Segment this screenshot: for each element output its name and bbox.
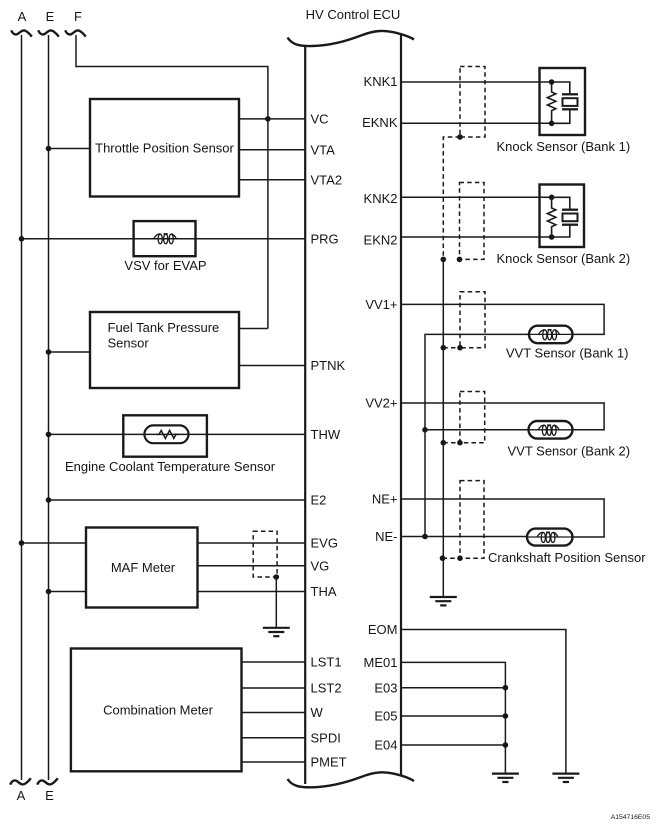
shield drain dashed knock1 to knock2	[443, 137, 460, 259]
VVT sensor bank 1 body	[529, 326, 573, 344]
wire fuel tank sensor supply (to F)	[239, 328, 268, 330]
svg-text:E2: E2	[311, 493, 327, 508]
wire F vertical	[76, 35, 268, 329]
svg-text:E04: E04	[374, 738, 397, 753]
wire A bus	[21, 35, 23, 780]
knock sensor 1 junction dots	[549, 79, 555, 85]
svg-text:MAF Meter: MAF Meter	[111, 560, 176, 575]
wire A to MAF meter (EVG side)	[22, 542, 87, 544]
wire NE-	[401, 536, 527, 538]
MAF meter box	[86, 528, 198, 608]
wire KNK2	[401, 196, 552, 198]
junction dot on E bus at E2	[46, 497, 52, 503]
wire THA	[198, 591, 306, 593]
wire ME01	[401, 662, 505, 773]
VVT sensor 1 coil	[529, 330, 573, 340]
junction dot on E bus at fuel tank sensor	[46, 349, 52, 355]
wire VG	[198, 565, 306, 567]
wire EVG	[198, 542, 306, 544]
junction dot knock1 shield	[457, 134, 463, 140]
VSV for EVAP box	[134, 221, 196, 256]
junction dot VC / F	[265, 116, 271, 122]
wire NE+	[401, 499, 604, 537]
svg-text:VC: VC	[311, 112, 329, 127]
crankshaft sensor coil	[527, 532, 573, 542]
junction dot on E bus at throttle sensor	[46, 146, 52, 152]
ground (ME01/E03/E05/E04)	[492, 774, 519, 782]
svg-text:EKNK: EKNK	[362, 115, 398, 130]
junction dots VVT2 shield	[441, 440, 447, 446]
wire SPDI	[242, 737, 306, 739]
wire EKN2	[401, 236, 552, 238]
junction dot on E bus at THA	[46, 589, 52, 595]
knock sensor bank 2 box	[540, 185, 585, 248]
wire VC	[239, 118, 305, 120]
svg-text:KNK2: KNK2	[364, 191, 398, 206]
wire VVT return bus down	[424, 430, 426, 537]
svg-text:LST2: LST2	[311, 681, 342, 696]
wire E05	[401, 715, 505, 717]
junction dots crank shield	[440, 555, 446, 561]
knock sensor 1 piezo element	[552, 82, 578, 123]
throttle position sensor box	[90, 99, 239, 197]
svg-text:VTA: VTA	[311, 143, 336, 158]
svg-text:VV2+: VV2+	[365, 396, 397, 411]
svg-text:VSV for EVAP: VSV for EVAP	[124, 258, 206, 273]
svg-text:Knock Sensor (Bank 1): Knock Sensor (Bank 1)	[497, 139, 631, 154]
junction dot on A bus at PRG	[19, 236, 25, 242]
svg-text:F: F	[74, 9, 82, 24]
knock sensor bank 1 box	[540, 68, 586, 135]
svg-text:VVT Sensor (Bank 1): VVT Sensor (Bank 1)	[506, 345, 629, 360]
wire VV2+	[401, 403, 604, 430]
svg-text:KNK1: KNK1	[364, 74, 398, 89]
wire E03	[401, 687, 505, 689]
shield drain wire (solid) to ground	[442, 259, 444, 597]
knock sensor 2 junction dots	[549, 195, 555, 201]
break symbol F top	[65, 30, 86, 36]
break symbol E top	[38, 30, 59, 36]
junction dot on A bus at EVG	[19, 540, 25, 546]
svg-text:THW: THW	[311, 427, 341, 442]
wire E2	[49, 499, 306, 501]
junction dot MAF shield drain	[274, 574, 280, 580]
crankshaft position sensor body	[527, 529, 573, 546]
svg-text:PTNK: PTNK	[311, 358, 346, 373]
wire THW	[49, 433, 306, 435]
junction dot on E bus at THW	[46, 432, 52, 438]
dashed link VVT2 shield to drain	[443, 442, 460, 444]
VVT sensor 2 coil	[529, 425, 573, 435]
svg-text:E03: E03	[374, 680, 397, 695]
svg-text:PRG: PRG	[311, 232, 339, 247]
junction dots VVT1 shield	[441, 345, 447, 351]
wire PRG	[22, 238, 306, 240]
svg-text:NE-: NE-	[375, 529, 397, 544]
wire VVT2 return	[425, 429, 529, 431]
svg-text:EOM: EOM	[368, 622, 398, 637]
ground (MAF shield)	[263, 628, 290, 636]
wire VTA2	[239, 179, 305, 181]
engine coolant temperature sensor box	[123, 415, 207, 456]
dashed link crank shield to drain	[443, 557, 461, 559]
svg-text:EKN2: EKN2	[364, 233, 398, 248]
svg-text:NE+: NE+	[372, 492, 398, 507]
svg-text:Knock Sensor (Bank 2): Knock Sensor (Bank 2)	[497, 251, 631, 266]
svg-text:A154716E05: A154716E05	[611, 814, 651, 821]
ground (sensor shields)	[430, 597, 457, 605]
wire PTNK	[239, 365, 305, 367]
shielded cable VVT2 dashed	[460, 392, 485, 443]
svg-text:E05: E05	[374, 709, 397, 724]
ECU left edge	[304, 47, 306, 785]
ECU bottom break wave	[288, 772, 415, 787]
svg-text:PMET: PMET	[311, 755, 347, 770]
svg-text:W: W	[311, 705, 324, 720]
svg-text:HV Control ECU: HV Control ECU	[306, 7, 401, 22]
dashed link VVT1 shield to drain	[443, 347, 460, 349]
break symbol A top	[11, 30, 32, 36]
svg-text:VG: VG	[311, 559, 330, 574]
wire MAF shield drain to ground	[275, 577, 277, 628]
svg-text:LST1: LST1	[311, 655, 342, 670]
svg-text:E: E	[46, 9, 55, 24]
wire LST1	[242, 661, 306, 663]
wire KNK1	[401, 81, 552, 83]
fuel tank pressure sensor box	[90, 312, 239, 388]
knock sensor 1 resistor	[547, 82, 555, 123]
wire PMET	[242, 761, 306, 763]
svg-text:EVG: EVG	[311, 536, 338, 551]
svg-text:SPDI: SPDI	[311, 730, 341, 745]
svg-text:A: A	[17, 788, 26, 803]
junction dot E05	[503, 713, 509, 719]
svg-text:THA: THA	[311, 584, 337, 599]
wire E to fuel tank sensor	[49, 351, 91, 353]
junction dot NE- / VVT return	[422, 534, 428, 540]
ECU right edge	[400, 34, 402, 777]
combination meter box	[71, 649, 242, 772]
knock sensor 2 resistor	[547, 197, 555, 237]
wire E04	[401, 744, 505, 746]
ECU top break wave	[288, 31, 415, 46]
svg-text:A: A	[18, 9, 27, 24]
junction dot E04	[503, 742, 509, 748]
wire LST2	[242, 687, 306, 689]
svg-text:Throttle Position Sensor: Throttle Position Sensor	[95, 141, 234, 156]
shielded cable VVT1 dashed	[460, 292, 485, 348]
wire E bus	[48, 35, 50, 780]
wire VTA	[239, 149, 305, 151]
wire EOM to ground	[401, 630, 566, 774]
wire VV1+	[401, 304, 604, 334]
wire W	[242, 712, 306, 714]
junction dot VVT2 return on bus	[422, 427, 428, 433]
wire VVT1 return	[425, 334, 529, 430]
shielded cable knock 1 dashed	[460, 67, 485, 138]
svg-text:Combination Meter: Combination Meter	[103, 703, 213, 718]
wire E to throttle position sensor	[49, 148, 91, 150]
knock sensor 2 piezo element	[552, 197, 578, 237]
junction dots knock2 shield	[441, 257, 447, 263]
break symbol A bottom	[10, 778, 31, 784]
VSV solenoid coil	[154, 234, 177, 244]
junction dot E03	[503, 685, 509, 691]
shielded cable knock 2 dashed	[460, 183, 485, 260]
svg-text:VV1+: VV1+	[365, 297, 397, 312]
svg-text:Engine Coolant Temperature Sen: Engine Coolant Temperature Sensor	[65, 459, 276, 474]
thermistor zigzag	[156, 430, 179, 438]
svg-text:VTA2: VTA2	[311, 173, 343, 188]
wire EKNK	[401, 122, 552, 124]
ground (EOM)	[552, 774, 579, 782]
svg-text:ME01: ME01	[364, 655, 398, 670]
svg-text:Crankshaft Position Sensor: Crankshaft Position Sensor	[488, 550, 646, 565]
svg-text:Sensor: Sensor	[108, 336, 150, 351]
shielded cable (MAF EVG/VG) dashed	[253, 531, 277, 577]
svg-text:E: E	[45, 788, 54, 803]
shielded cable crank dashed	[460, 481, 484, 559]
thermistor body (stadium)	[144, 425, 188, 443]
wire E to MAF meter (THA side)	[49, 591, 87, 593]
break symbol E bottom	[37, 778, 58, 784]
svg-text:VVT Sensor (Bank 2): VVT Sensor (Bank 2)	[508, 444, 631, 459]
svg-text:Fuel Tank Pressure: Fuel Tank Pressure	[108, 320, 220, 335]
VVT sensor bank 2 body	[529, 421, 573, 439]
